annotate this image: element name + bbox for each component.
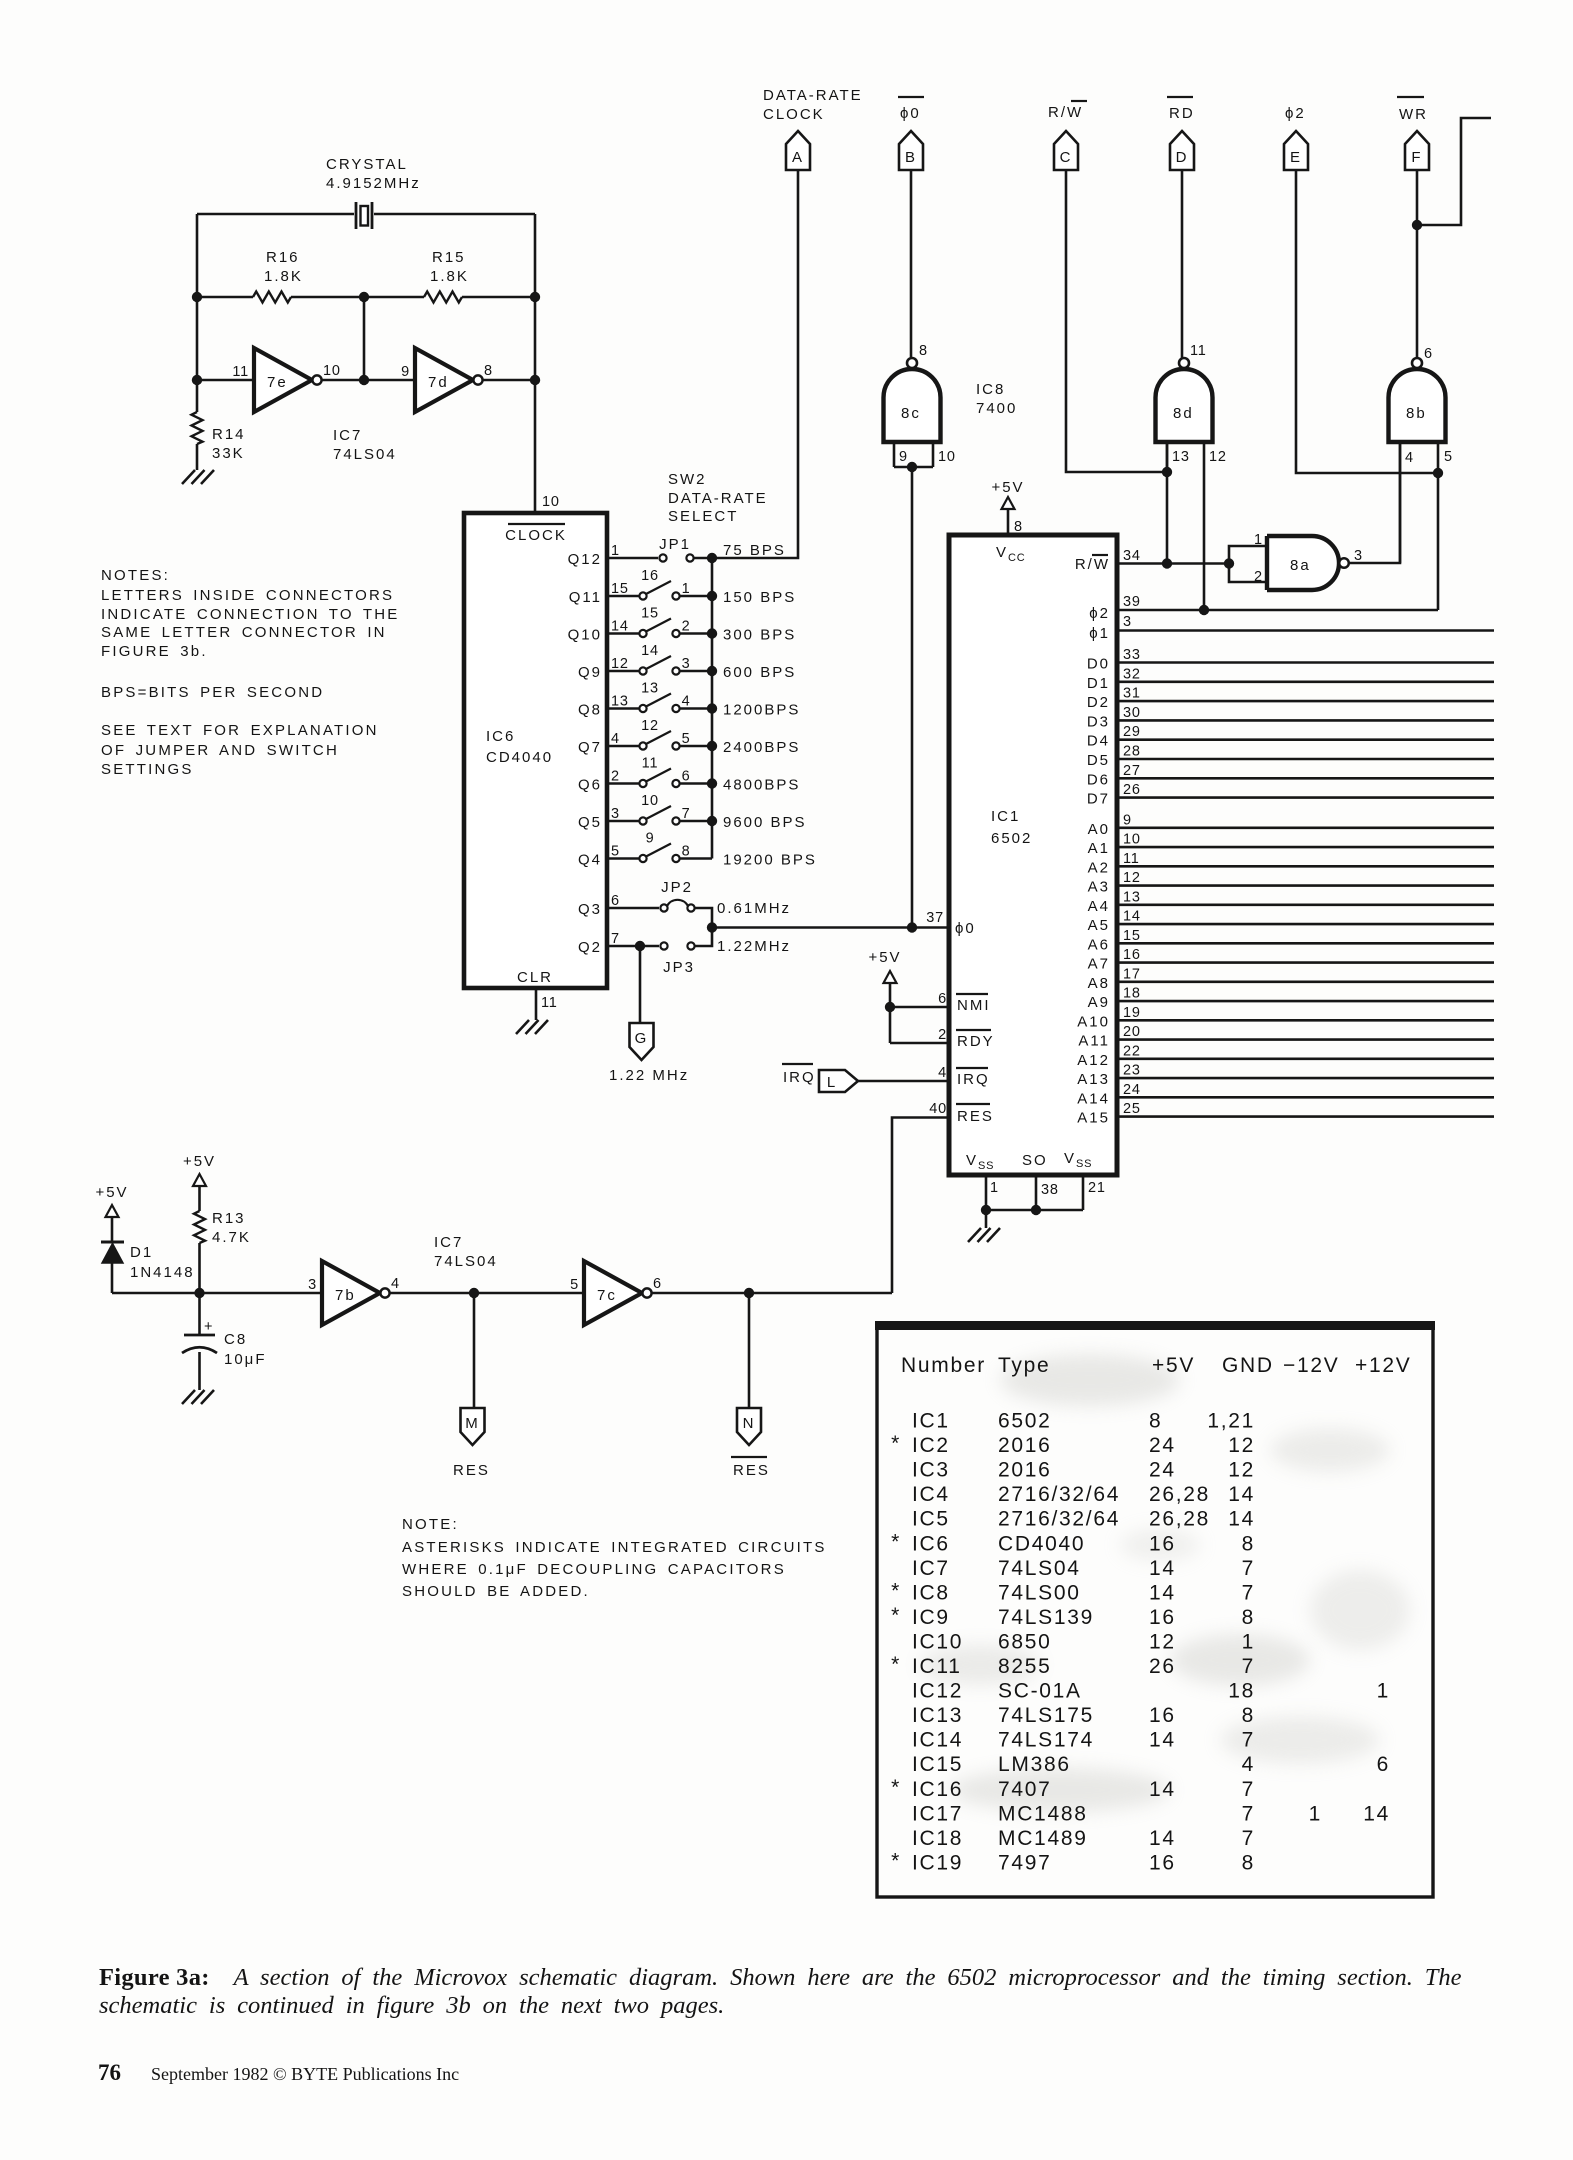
svg-text:A6: A6 xyxy=(1088,936,1110,953)
wire 8a output pin 3 to 8b pin 4 xyxy=(1349,443,1400,563)
svg-text:1: 1 xyxy=(1377,1680,1390,1703)
8a input bracket pins 1,2 xyxy=(1229,546,1267,582)
wire JP3 to phi0 node xyxy=(695,931,712,946)
svg-text:9: 9 xyxy=(899,449,908,465)
svg-text:13: 13 xyxy=(611,694,629,710)
svg-text:B: B xyxy=(905,149,917,166)
svg-text:7: 7 xyxy=(611,931,620,947)
wire to RDY pin 2 xyxy=(890,1042,949,1045)
svg-text:15: 15 xyxy=(611,581,629,597)
svg-text:IC4: IC4 xyxy=(912,1483,950,1506)
8c input pin box pins 9,10 xyxy=(893,442,896,467)
svg-text:A0: A0 xyxy=(1088,821,1110,838)
svg-text:4: 4 xyxy=(1242,1753,1255,1776)
svg-text:6: 6 xyxy=(1424,346,1433,362)
svg-text:4: 4 xyxy=(938,1065,947,1081)
svg-text:10μF: 10μF xyxy=(224,1351,267,1368)
wire A12 bus xyxy=(1117,1058,1494,1061)
connector D (RD-bar) xyxy=(1170,131,1194,170)
svg-text:14: 14 xyxy=(611,619,629,635)
svg-text:4: 4 xyxy=(611,731,620,747)
nand gate U8c xyxy=(884,369,941,442)
svg-text:8c: 8c xyxy=(901,405,921,422)
svg-text:74LS175: 74LS175 xyxy=(998,1704,1094,1727)
svg-text:+5V: +5V xyxy=(868,949,901,966)
svg-text:DATA-RATE: DATA-RATE xyxy=(763,87,863,104)
connector C (R/W) xyxy=(1054,131,1078,170)
junction phi0 select node xyxy=(707,922,717,932)
wire +5V to R13 xyxy=(198,1186,201,1211)
svg-text:+5V: +5V xyxy=(991,479,1024,496)
switch arm xyxy=(646,731,671,744)
wire 8b pin 5 xyxy=(1437,442,1440,473)
svg-text:14: 14 xyxy=(1123,909,1141,925)
svg-text:15: 15 xyxy=(641,606,659,622)
resistor R14 33K xyxy=(196,380,199,412)
switch arm xyxy=(646,619,671,632)
svg-text:IC10: IC10 xyxy=(912,1630,963,1653)
svg-text:12: 12 xyxy=(1228,1459,1255,1482)
svg-text:2016: 2016 xyxy=(998,1459,1052,1482)
svg-text:7400: 7400 xyxy=(976,400,1017,417)
junction right rail / 7d out xyxy=(530,375,540,385)
svg-text:11: 11 xyxy=(642,756,659,772)
wire Q3 to JP2 xyxy=(607,907,659,910)
wire Q9 to switch xyxy=(607,670,639,673)
svg-text:WR: WR xyxy=(1399,106,1428,123)
wire top rail left segment xyxy=(197,213,354,216)
wire A13 bus xyxy=(1117,1077,1494,1080)
capacitor C8 10uF xyxy=(198,1293,201,1335)
svg-text:D7: D7 xyxy=(1087,791,1110,808)
wire A4 bus xyxy=(1117,903,1494,906)
wire Vss pin 1 stub xyxy=(985,1175,988,1210)
wire 7d input xyxy=(364,379,415,382)
wire feedback vertical xyxy=(363,297,366,380)
svg-text:21: 21 xyxy=(1088,1180,1106,1196)
svg-text:R/W: R/W xyxy=(1075,556,1110,573)
svg-text:24: 24 xyxy=(1123,1082,1141,1098)
wire JP1 to bus xyxy=(694,557,712,560)
switch arm xyxy=(646,581,671,594)
svg-text:7497: 7497 xyxy=(998,1851,1052,1874)
svg-text:D4: D4 xyxy=(1087,733,1110,750)
svg-text:3: 3 xyxy=(682,656,691,672)
svg-text:6: 6 xyxy=(938,991,947,1007)
svg-text:Q10: Q10 xyxy=(568,627,602,644)
wire A6 bus xyxy=(1117,942,1494,945)
svg-text:10: 10 xyxy=(641,793,659,809)
inverter U7b xyxy=(322,1261,380,1325)
svg-text:6: 6 xyxy=(682,769,691,785)
connector M (RES) xyxy=(461,1408,485,1445)
junction F wire / top-right wire xyxy=(1412,220,1422,230)
svg-text:12: 12 xyxy=(1149,1630,1176,1653)
svg-text:IC14: IC14 xyxy=(912,1729,963,1752)
svg-text:CD4040: CD4040 xyxy=(998,1532,1085,1555)
svg-text:RD: RD xyxy=(1169,105,1195,122)
junction pin1 xyxy=(981,1205,991,1215)
svg-text:1: 1 xyxy=(990,1180,999,1196)
svg-text:17: 17 xyxy=(1123,966,1141,982)
wire 7e output xyxy=(322,379,364,382)
svg-text:+5V: +5V xyxy=(95,1184,128,1201)
junction bus row 9600 BPS xyxy=(707,816,717,826)
svg-text:19200 BPS: 19200 BPS xyxy=(723,852,817,869)
svg-text:26: 26 xyxy=(1123,782,1141,798)
wire +5V to NMI/RDY xyxy=(889,983,892,1043)
wire D2 bus xyxy=(1117,700,1494,703)
svg-text:75 BPS: 75 BPS xyxy=(723,542,786,559)
wire Q10 to switch xyxy=(607,632,639,635)
svg-text:26,28: 26,28 xyxy=(1149,1508,1210,1531)
svg-text:Q3: Q3 xyxy=(578,901,602,918)
svg-text:4: 4 xyxy=(1405,450,1414,466)
svg-text:SC-01A: SC-01A xyxy=(998,1680,1082,1703)
junction phi0 / 8c xyxy=(907,922,917,932)
svg-text:8: 8 xyxy=(1014,519,1023,535)
svg-text:7: 7 xyxy=(1242,1557,1255,1580)
svg-text:JP3: JP3 xyxy=(663,959,695,976)
wire 8c inputs to phi0 xyxy=(911,467,914,928)
svg-text:7: 7 xyxy=(1242,1655,1255,1678)
svg-text:16: 16 xyxy=(1149,1851,1176,1874)
svg-text:6: 6 xyxy=(611,893,620,909)
svg-text:WHERE 0.1μF DECOUPLING CAPACIT: WHERE 0.1μF DECOUPLING CAPACITORS xyxy=(402,1561,786,1578)
svg-text:A10: A10 xyxy=(1077,1013,1110,1030)
svg-text:39: 39 xyxy=(1123,594,1141,610)
svg-text:+12V: +12V xyxy=(1355,1354,1411,1377)
svg-text:3: 3 xyxy=(308,1277,317,1293)
svg-text:18: 18 xyxy=(1228,1680,1255,1703)
IC U1 6502 microprocessor xyxy=(949,535,1117,1175)
svg-text:IC2: IC2 xyxy=(912,1434,950,1457)
wire 7e input xyxy=(197,379,254,382)
svg-text:74LS174: 74LS174 xyxy=(998,1729,1094,1752)
svg-text:SETTINGS: SETTINGS xyxy=(101,761,194,778)
svg-text:R14: R14 xyxy=(212,426,246,443)
svg-text:JP1: JP1 xyxy=(659,536,691,553)
svg-text:23: 23 xyxy=(1123,1063,1141,1079)
wire A1 bus xyxy=(1117,846,1494,849)
svg-text:9: 9 xyxy=(401,364,410,380)
svg-text:150 BPS: 150 BPS xyxy=(723,589,796,606)
svg-text:1N4148: 1N4148 xyxy=(130,1264,195,1281)
wire A11 bus xyxy=(1117,1038,1494,1041)
nand gate U8d xyxy=(1156,369,1213,442)
svg-text:74LS04: 74LS04 xyxy=(998,1557,1081,1580)
svg-text:2400BPS: 2400BPS xyxy=(723,739,800,756)
connector N (RES-bar) xyxy=(737,1408,761,1445)
junction 7e out / feedback xyxy=(359,375,369,385)
wire to connector M xyxy=(473,1293,476,1408)
wire 7b out to 7c in xyxy=(390,1292,584,1295)
svg-text:IC16: IC16 xyxy=(912,1778,963,1801)
switch arm xyxy=(646,844,671,857)
svg-text:9: 9 xyxy=(1123,812,1132,828)
svg-text:14: 14 xyxy=(1228,1508,1255,1531)
wire to ground xyxy=(985,1210,988,1228)
svg-text:IRQ: IRQ xyxy=(783,1069,816,1086)
svg-text:1200BPS: 1200BPS xyxy=(723,702,800,719)
junction bus row 1200BPS xyxy=(707,703,717,713)
svg-text:RDY: RDY xyxy=(957,1033,995,1050)
svg-text:12: 12 xyxy=(1209,449,1227,465)
svg-text:7b: 7b xyxy=(335,1287,356,1304)
svg-text:7e: 7e xyxy=(267,374,288,391)
wire Q8 to switch xyxy=(607,707,639,710)
junction 8c inputs tied xyxy=(907,462,917,472)
svg-text:10: 10 xyxy=(542,494,560,510)
wire Vss pin 21 stub xyxy=(1082,1175,1085,1210)
svg-text:IC12: IC12 xyxy=(912,1680,963,1703)
svg-text:26: 26 xyxy=(1149,1655,1176,1678)
svg-text:5: 5 xyxy=(570,1277,579,1293)
svg-text:Type: Type xyxy=(998,1354,1050,1377)
svg-text:3: 3 xyxy=(1354,548,1363,564)
svg-text:IC8: IC8 xyxy=(976,381,1005,398)
junction right-rail/mid-rail xyxy=(530,292,540,302)
svg-text:RES: RES xyxy=(733,1462,770,1479)
svg-text:IRQ: IRQ xyxy=(957,1071,990,1088)
svg-text:8: 8 xyxy=(1242,1851,1255,1874)
svg-text:1.22 MHz: 1.22 MHz xyxy=(609,1067,689,1084)
svg-text:DATA-RATE: DATA-RATE xyxy=(668,490,768,507)
switch arm xyxy=(646,656,671,669)
wire D0 bus xyxy=(1117,661,1494,664)
svg-text:D5: D5 xyxy=(1087,752,1110,769)
ground below 6502 xyxy=(968,1228,1000,1242)
svg-text:9600 BPS: 9600 BPS xyxy=(723,814,807,831)
wire A2 bus xyxy=(1117,865,1494,868)
svg-text:A9: A9 xyxy=(1088,994,1110,1011)
svg-text:*: * xyxy=(891,1432,901,1455)
svg-text:8d: 8d xyxy=(1173,405,1194,422)
junction RES tap xyxy=(469,1288,479,1298)
svg-text:26,28: 26,28 xyxy=(1149,1483,1210,1506)
svg-text:31: 31 xyxy=(1123,686,1141,702)
svg-text:16: 16 xyxy=(1149,1704,1176,1727)
ground below IC6 CLR xyxy=(516,1020,548,1034)
junction +5V/NMI xyxy=(885,1002,895,1012)
svg-text:7: 7 xyxy=(1242,1778,1255,1801)
wire D7 bus xyxy=(1117,796,1494,799)
wire 8b pin 4 to 8a out xyxy=(1399,442,1402,563)
svg-text:CLOCK: CLOCK xyxy=(763,106,825,123)
svg-text:12: 12 xyxy=(1123,870,1141,886)
svg-text:38: 38 xyxy=(1041,1182,1059,1198)
wire to IC6 clock xyxy=(534,380,537,513)
junction bus row 4800BPS xyxy=(707,778,717,788)
resistor R14 33K body xyxy=(192,412,203,444)
svg-text:8: 8 xyxy=(919,343,928,359)
svg-text:2: 2 xyxy=(611,769,620,785)
svg-text:74LS04: 74LS04 xyxy=(333,446,397,463)
svg-text:+5V: +5V xyxy=(1152,1354,1195,1377)
junction Q2/G xyxy=(635,941,645,951)
svg-text:ϕ1: ϕ1 xyxy=(1089,625,1110,642)
svg-text:IC17: IC17 xyxy=(912,1802,963,1825)
junction E / 8b-5 / phi2 xyxy=(1433,468,1443,478)
svg-text:D2: D2 xyxy=(1087,694,1110,711)
svg-text:22: 22 xyxy=(1123,1043,1141,1059)
svg-text:IC7: IC7 xyxy=(333,427,362,444)
inverter U7c xyxy=(584,1261,642,1325)
wire switch to bus xyxy=(680,670,712,673)
svg-text:Q4: Q4 xyxy=(578,852,602,869)
wire 7c out to RES net xyxy=(652,1292,892,1295)
svg-text:12: 12 xyxy=(641,718,659,734)
svg-text:11: 11 xyxy=(1190,343,1207,359)
svg-text:2716/32/64: 2716/32/64 xyxy=(998,1508,1120,1531)
junction 8d-12 / phi2 xyxy=(1199,605,1209,615)
svg-text:SW2: SW2 xyxy=(668,471,707,488)
wire Q4 to switch xyxy=(607,857,639,860)
wire top rail right segment xyxy=(374,213,535,216)
svg-text:3: 3 xyxy=(1123,614,1132,630)
svg-text:Q6: Q6 xyxy=(578,777,602,794)
wire phi0 to 6502 xyxy=(712,926,949,929)
svg-text:C8: C8 xyxy=(224,1331,247,1348)
wire connector D to 8d output xyxy=(1181,170,1184,358)
wire A8 bus xyxy=(1117,980,1494,983)
svg-text:14: 14 xyxy=(1149,1729,1176,1752)
switch arm xyxy=(646,806,671,819)
svg-text:+: + xyxy=(204,1319,213,1335)
svg-text:7: 7 xyxy=(1242,1827,1255,1850)
wire A5 bus xyxy=(1117,923,1494,926)
junction RES-bar tap xyxy=(744,1288,754,1298)
svg-text:SO: SO xyxy=(1022,1152,1048,1169)
svg-text:14: 14 xyxy=(641,643,659,659)
crystal Y1 4.9152MHz xyxy=(355,202,358,229)
svg-text:29: 29 xyxy=(1123,724,1141,740)
wire 8d pin13 down to R/W line xyxy=(1166,443,1169,563)
junction mid-rail/feedback xyxy=(359,292,369,302)
svg-text:11: 11 xyxy=(1123,851,1140,867)
svg-text:10: 10 xyxy=(1123,832,1141,848)
svg-text:14: 14 xyxy=(1149,1557,1176,1580)
svg-text:A: A xyxy=(792,149,804,166)
svg-text:LM386: LM386 xyxy=(998,1753,1071,1776)
svg-text:2716/32/64: 2716/32/64 xyxy=(998,1483,1120,1506)
svg-text:8255: 8255 xyxy=(998,1655,1052,1678)
svg-text:8: 8 xyxy=(682,844,691,860)
wire D4 bus xyxy=(1117,738,1494,741)
junction bus row 75 BPS xyxy=(707,553,717,563)
wire +5V to Vcc pin 8 xyxy=(1007,509,1010,535)
junction bus row 300 BPS xyxy=(707,628,717,638)
svg-text:16: 16 xyxy=(641,568,659,584)
svg-text:34: 34 xyxy=(1123,548,1141,564)
switch arm xyxy=(646,694,671,707)
svg-text:MC1489: MC1489 xyxy=(998,1827,1088,1850)
svg-text:14: 14 xyxy=(1149,1778,1176,1801)
wire Q2 to connector G xyxy=(639,946,642,1023)
wire D5 bus xyxy=(1117,758,1494,761)
svg-text:33K: 33K xyxy=(212,445,245,462)
svg-text:D3: D3 xyxy=(1087,713,1110,730)
wire JP2 to phi0 node xyxy=(695,908,712,924)
svg-text:10: 10 xyxy=(938,449,956,465)
svg-text:IC19: IC19 xyxy=(912,1851,963,1874)
wire Q6 to switch xyxy=(607,782,639,785)
svg-text:8: 8 xyxy=(1242,1704,1255,1727)
junction bus row 600 BPS xyxy=(707,666,717,676)
svg-text:IC9: IC9 xyxy=(912,1606,950,1629)
wire +5V to D1 xyxy=(111,1217,114,1242)
wire A0 bus xyxy=(1117,826,1494,829)
svg-text:R16: R16 xyxy=(266,249,300,266)
wire tying pins 1/38/21 xyxy=(986,1209,1083,1212)
svg-text:15: 15 xyxy=(1123,928,1141,944)
svg-text:6850: 6850 xyxy=(998,1630,1052,1653)
wire 8d pin 13 xyxy=(1166,442,1169,472)
svg-text:R13: R13 xyxy=(212,1210,246,1227)
svg-text:IC8: IC8 xyxy=(912,1581,950,1604)
svg-text:24: 24 xyxy=(1149,1434,1176,1457)
wire bus vertical xyxy=(711,558,714,859)
svg-text:IC7: IC7 xyxy=(434,1234,463,1251)
svg-text:8a: 8a xyxy=(1290,557,1311,574)
svg-text:6502: 6502 xyxy=(991,830,1032,847)
svg-text:Q2: Q2 xyxy=(578,939,602,956)
svg-text:SEE TEXT FOR EXPLANATION: SEE TEXT FOR EXPLANATION xyxy=(101,722,379,739)
svg-text:CLR: CLR xyxy=(517,969,553,986)
svg-text:Q7: Q7 xyxy=(578,739,602,756)
svg-text:13: 13 xyxy=(1123,889,1141,905)
svg-text:20: 20 xyxy=(1123,1024,1141,1040)
svg-text:2: 2 xyxy=(938,1027,947,1043)
svg-text:IC1: IC1 xyxy=(912,1410,950,1433)
svg-text:1: 1 xyxy=(682,581,691,597)
wire A10 bus xyxy=(1117,1019,1494,1022)
svg-text:IC5: IC5 xyxy=(912,1508,950,1531)
wire switch to bus xyxy=(680,632,712,635)
svg-text:12: 12 xyxy=(611,656,629,672)
wire middle rail with R16 R15 xyxy=(197,296,253,299)
svg-text:SELECT: SELECT xyxy=(668,508,738,525)
svg-text:6502: 6502 xyxy=(998,1410,1052,1433)
wire 7d output xyxy=(483,379,535,382)
svg-text:19: 19 xyxy=(1123,1005,1141,1021)
op-amp/inverter U7e xyxy=(254,348,312,412)
svg-text:A1: A1 xyxy=(1088,840,1110,857)
svg-text:4: 4 xyxy=(391,1276,400,1292)
svg-text:37: 37 xyxy=(926,910,944,926)
svg-text:CD4040: CD4040 xyxy=(486,749,553,766)
svg-text:IC1: IC1 xyxy=(991,808,1020,825)
svg-text:NOTES:: NOTES: xyxy=(101,567,170,584)
svg-text:1.8K: 1.8K xyxy=(264,268,303,285)
svg-text:N: N xyxy=(743,1415,756,1432)
svg-text:*: * xyxy=(891,1579,901,1602)
wire D1 anode down xyxy=(111,1263,114,1293)
svg-text:8: 8 xyxy=(484,363,493,379)
svg-text:6: 6 xyxy=(653,1276,662,1292)
svg-text:A15: A15 xyxy=(1077,1110,1110,1127)
svg-text:IC6: IC6 xyxy=(486,728,515,745)
wire connector B to 8c output xyxy=(910,170,913,358)
junction bus row 150 BPS xyxy=(707,591,717,601)
svg-text:GND: GND xyxy=(1222,1354,1274,1377)
svg-text:6: 6 xyxy=(1377,1753,1390,1776)
svg-text:RES: RES xyxy=(957,1108,994,1125)
svg-text:IC11: IC11 xyxy=(912,1655,962,1678)
svg-text:D0: D0 xyxy=(1087,656,1110,673)
svg-text:13: 13 xyxy=(1172,449,1190,465)
connector G xyxy=(630,1023,654,1060)
